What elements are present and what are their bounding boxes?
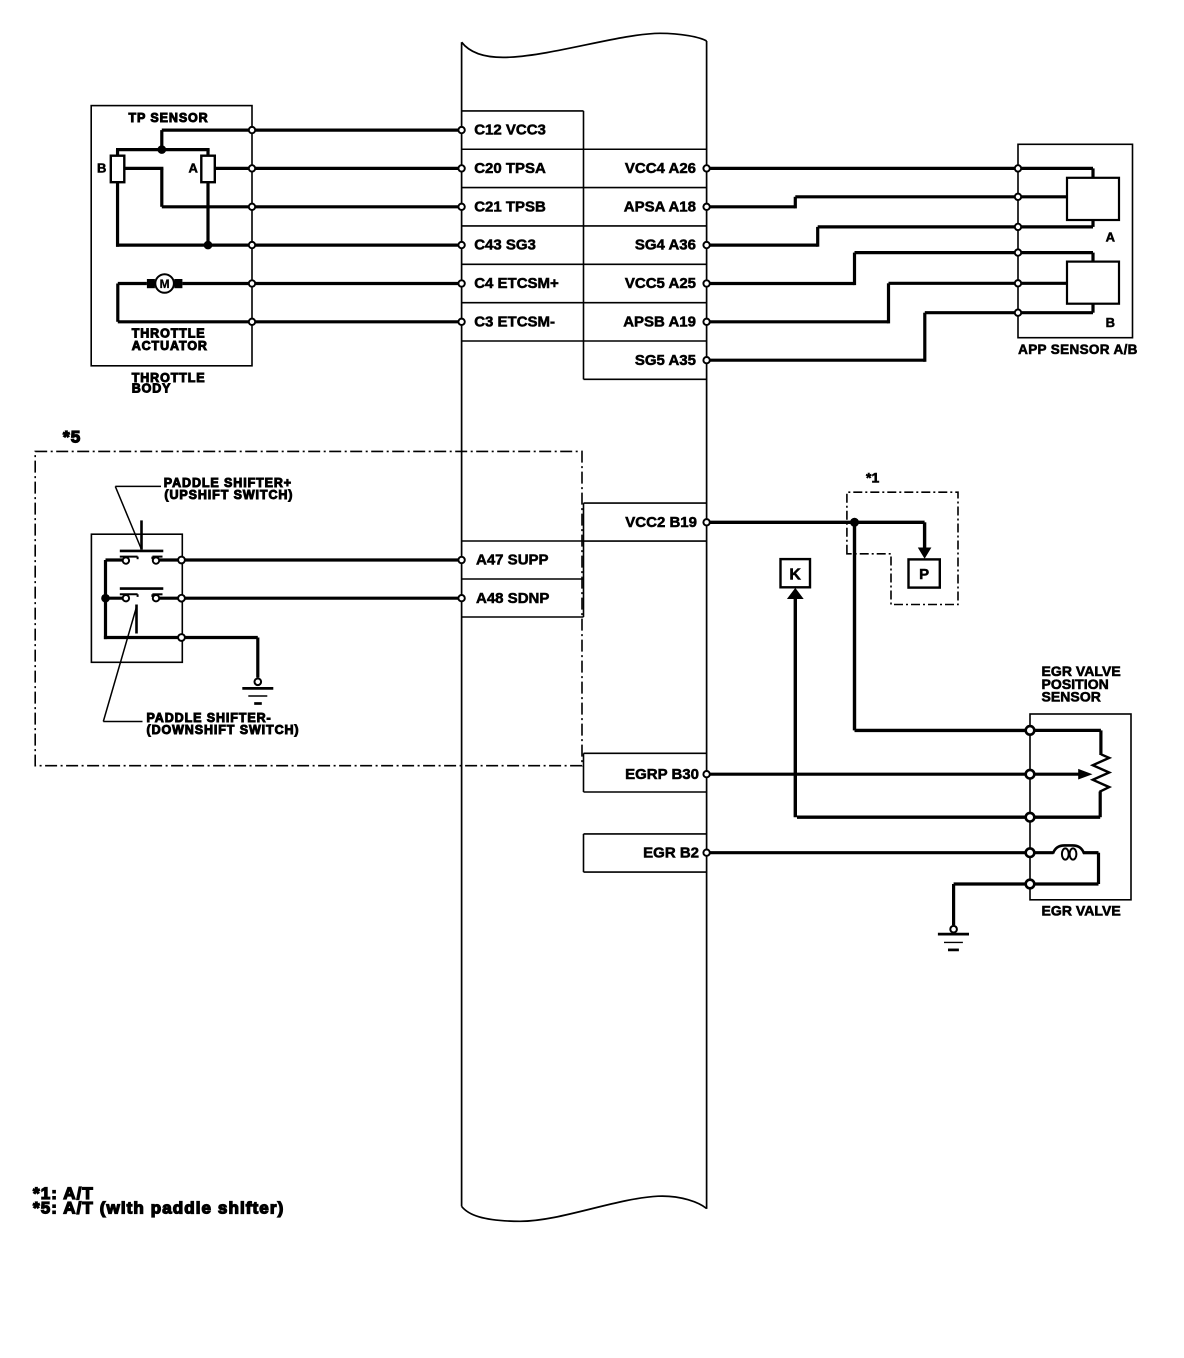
svg-text:(UPSHIFT SWITCH): (UPSHIFT SWITCH) xyxy=(164,488,293,502)
svg-text:BODY: BODY xyxy=(132,381,172,395)
svg-text:*5: *5 xyxy=(63,428,81,447)
svg-text:SG5 A35: SG5 A35 xyxy=(635,352,696,369)
svg-text:VCC4 A26: VCC4 A26 xyxy=(625,160,696,177)
svg-text:ACTUATOR: ACTUATOR xyxy=(132,339,208,353)
svg-text:*1: *1 xyxy=(866,469,879,485)
svg-text:A: A xyxy=(1106,229,1116,244)
svg-text:A48 SDNP: A48 SDNP xyxy=(476,590,549,607)
svg-text:A47 SUPP: A47 SUPP xyxy=(476,552,549,569)
svg-text:TP SENSOR: TP SENSOR xyxy=(129,111,209,125)
svg-text:P: P xyxy=(919,566,929,583)
svg-text:A: A xyxy=(189,161,199,176)
svg-text:SG4 A36: SG4 A36 xyxy=(635,237,696,254)
svg-text:APSB A19: APSB A19 xyxy=(623,313,696,330)
svg-text:VCC5 A25: VCC5 A25 xyxy=(625,275,696,292)
svg-text:VCC2 B19: VCC2 B19 xyxy=(625,514,697,531)
svg-text:K: K xyxy=(789,566,801,583)
svg-text:B: B xyxy=(97,161,106,176)
svg-text:C21 TPSB: C21 TPSB xyxy=(474,198,546,215)
svg-text:B: B xyxy=(1106,315,1115,330)
svg-text:C3 ETCSM-: C3 ETCSM- xyxy=(474,313,555,330)
svg-text:C43 SG3: C43 SG3 xyxy=(474,237,536,254)
svg-text:C12 VCC3: C12 VCC3 xyxy=(474,122,546,139)
svg-text:(DOWNSHIFT SWITCH): (DOWNSHIFT SWITCH) xyxy=(147,723,300,737)
svg-text:M: M xyxy=(160,277,170,291)
svg-text:EGR B2: EGR B2 xyxy=(643,844,699,861)
svg-text:EGR VALVE: EGR VALVE xyxy=(1042,903,1121,919)
svg-text:APP SENSOR A/B: APP SENSOR A/B xyxy=(1018,342,1138,357)
svg-text:EGRP B30: EGRP B30 xyxy=(625,766,699,783)
svg-text:SENSOR: SENSOR xyxy=(1042,688,1101,704)
svg-text:*5: A/T (with paddle shifter): *5: A/T (with paddle shifter) xyxy=(33,1199,284,1218)
svg-text:C4 ETCSM+: C4 ETCSM+ xyxy=(474,275,559,292)
svg-text:C20 TPSA: C20 TPSA xyxy=(474,160,546,177)
svg-text:APSA A18: APSA A18 xyxy=(624,198,696,215)
